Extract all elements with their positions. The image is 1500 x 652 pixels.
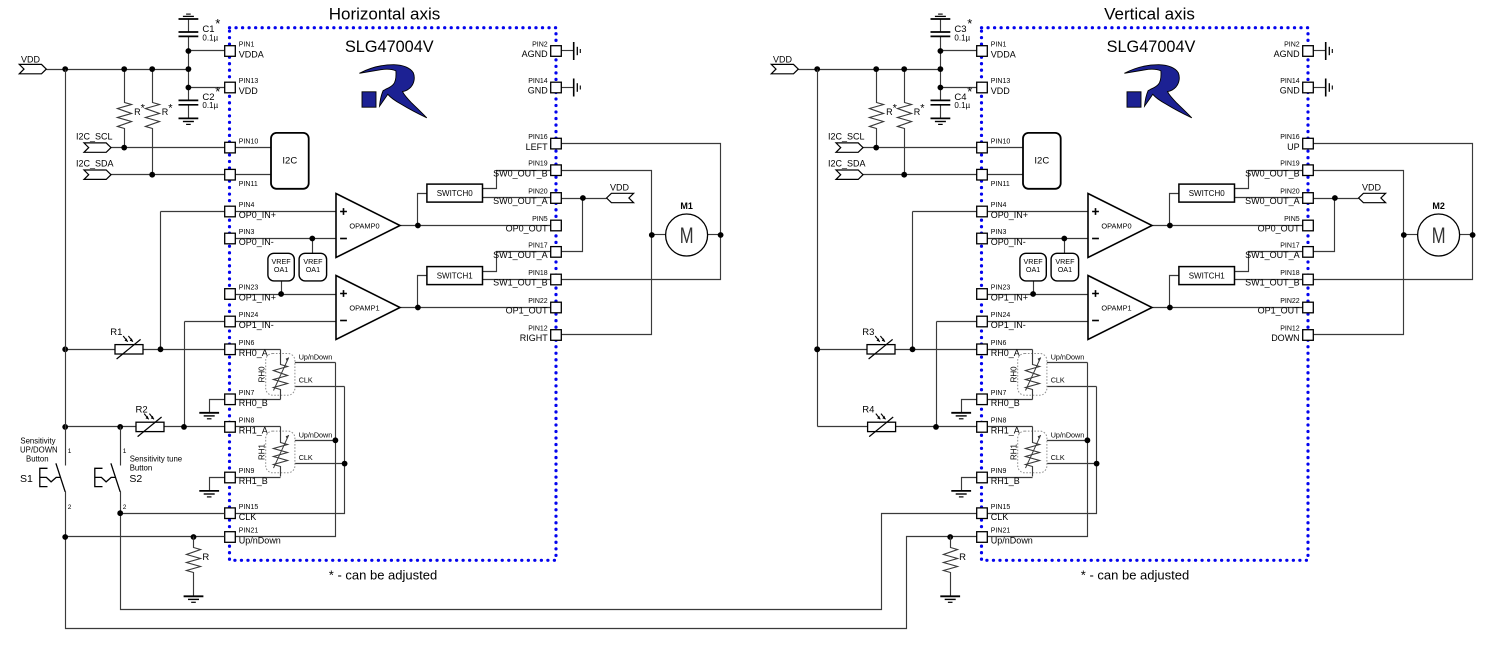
svg-text:PIN24: PIN24: [239, 312, 259, 319]
svg-text:CLK: CLK: [299, 453, 313, 462]
svg-text:RH1: RH1: [1009, 443, 1018, 460]
svg-text:Sensitivity: Sensitivity: [20, 437, 55, 446]
svg-text:PIN21: PIN21: [991, 528, 1011, 535]
svg-text:OPAMP0: OPAMP0: [1101, 221, 1131, 230]
svg-text:PIN20: PIN20: [528, 189, 548, 196]
svg-text:PIN3: PIN3: [239, 229, 255, 236]
svg-text:* - can be adjusted: * - can be adjusted: [1081, 568, 1189, 583]
svg-text:SW0_OUT_B: SW0_OUT_B: [1245, 168, 1300, 178]
svg-text:M2: M2: [1432, 201, 1445, 211]
svg-text:SW1_OUT_A: SW1_OUT_A: [1245, 250, 1300, 260]
svg-text:*: *: [967, 84, 972, 99]
svg-text:PIN8: PIN8: [239, 418, 255, 425]
svg-text:PIN11: PIN11: [991, 181, 1010, 188]
svg-text:LEFT: LEFT: [526, 142, 549, 152]
svg-text:OA1: OA1: [1058, 265, 1072, 274]
svg-text:*: *: [893, 102, 898, 114]
svg-text:PIN12: PIN12: [1280, 326, 1300, 333]
svg-text:OP1_OUT: OP1_OUT: [506, 306, 549, 316]
svg-text:CLK: CLK: [1051, 453, 1065, 462]
svg-text:Vertical axis: Vertical axis: [1104, 5, 1195, 24]
svg-text:PIN6: PIN6: [239, 340, 255, 347]
svg-text:OP0_IN-: OP0_IN-: [239, 237, 274, 247]
svg-text:SW0_OUT_A: SW0_OUT_A: [493, 196, 548, 206]
svg-text:I2C_SCL: I2C_SCL: [828, 132, 865, 142]
svg-text:PIN13: PIN13: [239, 78, 259, 85]
svg-text:PIN16: PIN16: [1280, 134, 1300, 141]
svg-text:Up/nDown: Up/nDown: [1051, 353, 1085, 362]
svg-text:PIN18: PIN18: [1280, 270, 1300, 277]
svg-text:0.1µ: 0.1µ: [202, 34, 218, 43]
svg-text:SWITCH0: SWITCH0: [1189, 189, 1226, 198]
svg-text:OA1: OA1: [306, 265, 320, 274]
svg-text:*: *: [920, 102, 925, 114]
svg-text:S2: S2: [129, 473, 142, 485]
svg-text:CLK: CLK: [239, 512, 257, 522]
svg-text:PIN17: PIN17: [528, 242, 548, 249]
svg-text:I2C_SDA: I2C_SDA: [828, 159, 866, 169]
svg-text:VDD: VDD: [1362, 183, 1382, 193]
svg-text:I2C_SCL: I2C_SCL: [76, 132, 113, 142]
svg-text:PIN23: PIN23: [991, 285, 1011, 292]
svg-text:I2C: I2C: [282, 156, 297, 167]
svg-text:VDD: VDD: [21, 55, 41, 65]
svg-text:Up/nDown: Up/nDown: [991, 536, 1033, 546]
svg-text:PIN13: PIN13: [991, 78, 1011, 85]
svg-text:GND: GND: [1280, 86, 1301, 96]
svg-text:AGND: AGND: [1274, 49, 1301, 59]
svg-text:2: 2: [68, 504, 72, 511]
svg-text:SLG47004V: SLG47004V: [345, 38, 434, 56]
svg-text:OP1_IN-: OP1_IN-: [991, 320, 1026, 330]
svg-text:PIN20: PIN20: [1280, 189, 1300, 196]
svg-text:Horizontal axis: Horizontal axis: [329, 5, 441, 24]
svg-text:PIN17: PIN17: [1280, 242, 1300, 249]
svg-text:M: M: [1432, 223, 1446, 248]
svg-text:PIN19: PIN19: [1280, 161, 1300, 168]
svg-text:SWITCH0: SWITCH0: [437, 189, 474, 198]
svg-text:OP1_IN-: OP1_IN-: [239, 320, 274, 330]
svg-text:RH0_B: RH0_B: [991, 398, 1020, 408]
svg-text:DOWN: DOWN: [1271, 333, 1300, 343]
svg-text:VDD: VDD: [239, 86, 259, 96]
svg-text:0.1µ: 0.1µ: [954, 34, 970, 43]
svg-text:R4: R4: [862, 405, 874, 416]
svg-text:R1: R1: [110, 327, 122, 338]
svg-text:PIN18: PIN18: [528, 270, 548, 277]
svg-text:Up/nDown: Up/nDown: [299, 353, 333, 362]
svg-text:PIN21: PIN21: [239, 528, 259, 535]
svg-text:0.1µ: 0.1µ: [954, 101, 970, 110]
svg-text:PIN22: PIN22: [1280, 298, 1300, 305]
svg-text:AGND: AGND: [522, 49, 549, 59]
svg-text:PIN19: PIN19: [528, 161, 548, 168]
svg-text:VDD: VDD: [991, 86, 1011, 96]
svg-text:SW1_OUT_B: SW1_OUT_B: [493, 278, 548, 288]
svg-text:PIN9: PIN9: [991, 468, 1007, 475]
svg-text:RH0: RH0: [1009, 366, 1018, 383]
svg-text:*: *: [141, 102, 146, 114]
svg-text:Button: Button: [26, 454, 49, 463]
svg-text:SW1_OUT_B: SW1_OUT_B: [1245, 278, 1300, 288]
svg-text:RH1_B: RH1_B: [991, 476, 1020, 486]
svg-text:OP1_IN+: OP1_IN+: [991, 293, 1028, 303]
svg-text:S1: S1: [20, 473, 33, 485]
svg-text:RH1_A: RH1_A: [991, 426, 1020, 436]
svg-text:SW1_OUT_A: SW1_OUT_A: [493, 250, 548, 260]
svg-text:PIN15: PIN15: [991, 504, 1011, 511]
svg-text:PIN3: PIN3: [991, 229, 1007, 236]
svg-text:PIN4: PIN4: [991, 202, 1007, 209]
svg-text:PIN10: PIN10: [239, 138, 259, 145]
svg-text:I2C: I2C: [1034, 156, 1049, 167]
svg-text:OPAMP1: OPAMP1: [349, 303, 379, 312]
svg-text:PIN5: PIN5: [532, 216, 548, 223]
svg-text:R3: R3: [862, 327, 874, 338]
svg-text:*: *: [967, 16, 972, 31]
svg-text:PIN11: PIN11: [239, 181, 258, 188]
svg-text:PIN7: PIN7: [991, 390, 1007, 397]
svg-text:PIN12: PIN12: [528, 326, 548, 333]
svg-text:CLK: CLK: [991, 512, 1009, 522]
svg-text:PIN22: PIN22: [528, 298, 548, 305]
svg-text:Sensitivity tune: Sensitivity tune: [130, 454, 182, 463]
svg-text:VDDA: VDDA: [239, 50, 264, 60]
svg-text:PIN16: PIN16: [528, 134, 548, 141]
svg-text:0.1µ: 0.1µ: [202, 101, 218, 110]
svg-text:R2: R2: [136, 405, 148, 416]
svg-text:*: *: [168, 102, 173, 114]
svg-text:*: *: [215, 84, 220, 99]
svg-text:RH0: RH0: [257, 366, 266, 383]
svg-text:UP: UP: [1287, 142, 1300, 152]
svg-text:OPAMP0: OPAMP0: [349, 221, 379, 230]
svg-text:OA1: OA1: [1026, 265, 1040, 274]
svg-text:*: *: [215, 16, 220, 31]
svg-text:OP1_OUT: OP1_OUT: [1258, 306, 1301, 316]
svg-text:UP/DOWN: UP/DOWN: [20, 445, 58, 454]
svg-text:OPAMP1: OPAMP1: [1101, 303, 1131, 312]
svg-text:CLK: CLK: [1051, 375, 1065, 384]
svg-text:PIN5: PIN5: [1284, 216, 1300, 223]
svg-text:PIN10: PIN10: [991, 138, 1011, 145]
svg-text:PIN23: PIN23: [239, 285, 259, 292]
svg-text:* - can be adjusted: * - can be adjusted: [329, 568, 437, 583]
svg-text:I2C_SDA: I2C_SDA: [76, 159, 114, 169]
svg-text:GND: GND: [528, 86, 549, 96]
svg-text:VDDA: VDDA: [991, 50, 1016, 60]
svg-text:M: M: [680, 223, 694, 248]
svg-text:R: R: [959, 552, 966, 563]
svg-text:PIN24: PIN24: [991, 312, 1011, 319]
svg-text:RH0_A: RH0_A: [991, 348, 1020, 358]
svg-text:PIN9: PIN9: [239, 468, 255, 475]
svg-text:VDD: VDD: [773, 55, 793, 65]
svg-text:RH1_B: RH1_B: [239, 476, 268, 486]
svg-text:PIN4: PIN4: [239, 202, 255, 209]
svg-text:Up/nDown: Up/nDown: [239, 536, 281, 546]
svg-text:RH0_B: RH0_B: [239, 398, 268, 408]
svg-text:OP1_IN+: OP1_IN+: [239, 293, 276, 303]
svg-text:1: 1: [68, 448, 72, 455]
svg-text:PIN1: PIN1: [991, 42, 1007, 49]
svg-text:RH0_A: RH0_A: [239, 348, 268, 358]
svg-text:PIN2: PIN2: [1284, 42, 1300, 49]
svg-text:SLG47004V: SLG47004V: [1107, 38, 1196, 56]
svg-text:PIN2: PIN2: [532, 42, 548, 49]
svg-text:SWITCH1: SWITCH1: [437, 272, 474, 281]
svg-text:PIN6: PIN6: [991, 340, 1007, 347]
svg-text:2: 2: [123, 504, 127, 511]
svg-text:CLK: CLK: [299, 375, 313, 384]
svg-text:SWITCH1: SWITCH1: [1189, 272, 1226, 281]
svg-text:PIN8: PIN8: [991, 418, 1007, 425]
svg-text:OP0_IN+: OP0_IN+: [991, 210, 1028, 220]
svg-text:RIGHT: RIGHT: [520, 333, 549, 343]
svg-text:Up/nDown: Up/nDown: [299, 430, 333, 439]
svg-text:OP0_IN-: OP0_IN-: [991, 237, 1026, 247]
svg-text:PIN14: PIN14: [528, 78, 548, 85]
svg-text:VDD: VDD: [610, 183, 630, 193]
svg-text:1: 1: [123, 448, 127, 455]
svg-text:PIN7: PIN7: [239, 390, 255, 397]
svg-text:PIN14: PIN14: [1280, 78, 1300, 85]
svg-text:PIN15: PIN15: [239, 504, 259, 511]
svg-text:OP0_IN+: OP0_IN+: [239, 210, 276, 220]
svg-text:OA1: OA1: [274, 265, 288, 274]
svg-text:SW0_OUT_A: SW0_OUT_A: [1245, 196, 1300, 206]
svg-text:OP0_OUT: OP0_OUT: [506, 224, 549, 234]
svg-text:OP0_OUT: OP0_OUT: [1258, 224, 1301, 234]
svg-text:Button: Button: [130, 464, 153, 473]
svg-text:PIN1: PIN1: [239, 42, 255, 49]
svg-text:M1: M1: [680, 201, 693, 211]
svg-text:Up/nDown: Up/nDown: [1051, 430, 1085, 439]
svg-text:RH1_A: RH1_A: [239, 426, 268, 436]
svg-text:R: R: [202, 552, 209, 563]
svg-text:SW0_OUT_B: SW0_OUT_B: [493, 168, 548, 178]
svg-text:RH1: RH1: [257, 443, 266, 460]
